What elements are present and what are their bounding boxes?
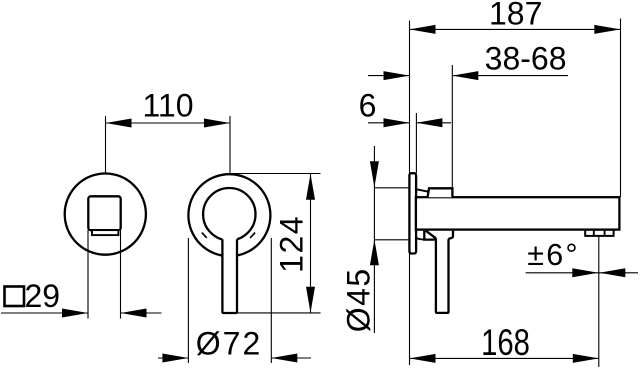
extension line aerator axis	[598, 236, 600, 367]
arrow 6 degrees left	[572, 268, 598, 277]
dimension line 38-68 right tail	[452, 75, 568, 77]
extension line 124 bottom	[237, 312, 321, 314]
dimension line 187	[410, 28, 621, 30]
arrow 29 left	[62, 309, 88, 318]
dimension line 45 vertical	[373, 146, 375, 333]
extension line 187 right	[620, 19, 622, 198]
spout body	[416, 197, 620, 229]
svg-text:187: 187	[489, 0, 542, 32]
arrow 6 left	[384, 118, 410, 127]
wall face line lower	[409, 254, 411, 366]
dimension line 29 left tail	[1, 312, 88, 314]
arrow 187 right	[594, 25, 620, 34]
dimension line 72 right tail	[271, 357, 311, 359]
lever side taper	[426, 231, 436, 239]
dimension line 38-68 left tail	[368, 75, 410, 77]
lever ring inner circle	[203, 188, 255, 240]
dimension plus minus 6 degrees	[526, 236, 638, 367]
dimension line 6 degrees	[526, 272, 638, 274]
lever side	[436, 231, 453, 313]
dimension 187	[410, 19, 621, 198]
arrow 6 degrees right	[599, 268, 625, 277]
extension line 72 right	[270, 238, 272, 363]
dimension line 124	[310, 174, 312, 313]
arrow 38-68 right	[452, 71, 478, 80]
dimension 124	[231, 174, 321, 313]
arrow 168 left	[410, 354, 436, 363]
aerator divider right	[604, 230, 606, 236]
dimension 110	[106, 116, 231, 174]
arrow 38-68 left	[384, 71, 410, 80]
escutcheon circle left	[65, 174, 146, 255]
valve body top	[428, 188, 453, 197]
dimension 38-68	[368, 65, 568, 188]
svg-text:168: 168	[481, 323, 530, 364]
svg-text:110: 110	[142, 88, 193, 124]
arrow 6 right	[416, 118, 442, 127]
dimension line 72 left tail	[158, 357, 188, 359]
valve body bottom left edge	[424, 231, 436, 240]
lever shaft outline	[222, 239, 237, 313]
svg-text:±6°: ±6°	[527, 238, 580, 272]
aerator divider left	[593, 230, 595, 236]
arrow 110 right	[204, 119, 230, 128]
extension line 29 right	[120, 230, 122, 319]
dimension 6	[368, 113, 451, 173]
lever shaft fill mask	[223, 236, 237, 312]
dimension line 6 right tail	[416, 122, 451, 124]
valve body bottom collar line	[416, 238, 424, 240]
arrow 45 top	[370, 161, 379, 187]
arrow 45 bottom	[370, 239, 379, 265]
escutcheon circle outer	[188, 174, 270, 256]
svg-text:29: 29	[25, 278, 61, 314]
tick mark left	[202, 233, 207, 238]
aerator	[585, 230, 613, 236]
extension line 110 left	[105, 116, 107, 174]
dimension diameter 72	[158, 238, 311, 363]
dimension square 29	[1, 230, 162, 319]
extension line 38-68 right	[451, 65, 453, 188]
extension line 29 left	[87, 230, 89, 319]
extension line 72 left	[187, 238, 189, 363]
dimension line 6 left tail	[368, 122, 410, 124]
wall plate escutcheon side	[409, 173, 416, 253]
extension line 45 top	[374, 187, 409, 189]
wall face line upper	[409, 21, 411, 174]
square handle	[88, 196, 120, 230]
svg-text:Ø45: Ø45	[340, 267, 376, 332]
svg-text:38-68: 38-68	[485, 41, 567, 77]
dimension line 110	[106, 122, 231, 124]
arrow 124 bottom	[306, 287, 315, 313]
arrow 124 top	[306, 174, 315, 200]
dimension line 29 right tail	[121, 312, 162, 314]
arrow 187 left	[410, 25, 436, 34]
extension line 45 bottom	[374, 239, 409, 241]
valve body top collar line	[416, 189, 428, 191]
square symbol of label 29	[5, 287, 25, 307]
arrow 72 right	[271, 354, 297, 363]
arrow 29 right	[121, 309, 147, 318]
tick mark right	[250, 233, 255, 238]
handle lip	[92, 230, 118, 235]
extension line 110 right	[229, 116, 231, 174]
svg-text:Ø72: Ø72	[196, 326, 262, 362]
arrow 168 right	[573, 354, 599, 363]
svg-text:124: 124	[274, 215, 310, 273]
extension line 124 top	[231, 173, 321, 175]
arrow 110 left	[106, 119, 132, 128]
extension line 6 right	[415, 113, 417, 173]
dimension diameter 45	[374, 146, 409, 333]
svg-text:6: 6	[359, 88, 377, 124]
dimension line 168	[410, 357, 599, 359]
arrow 72 left	[162, 354, 188, 363]
